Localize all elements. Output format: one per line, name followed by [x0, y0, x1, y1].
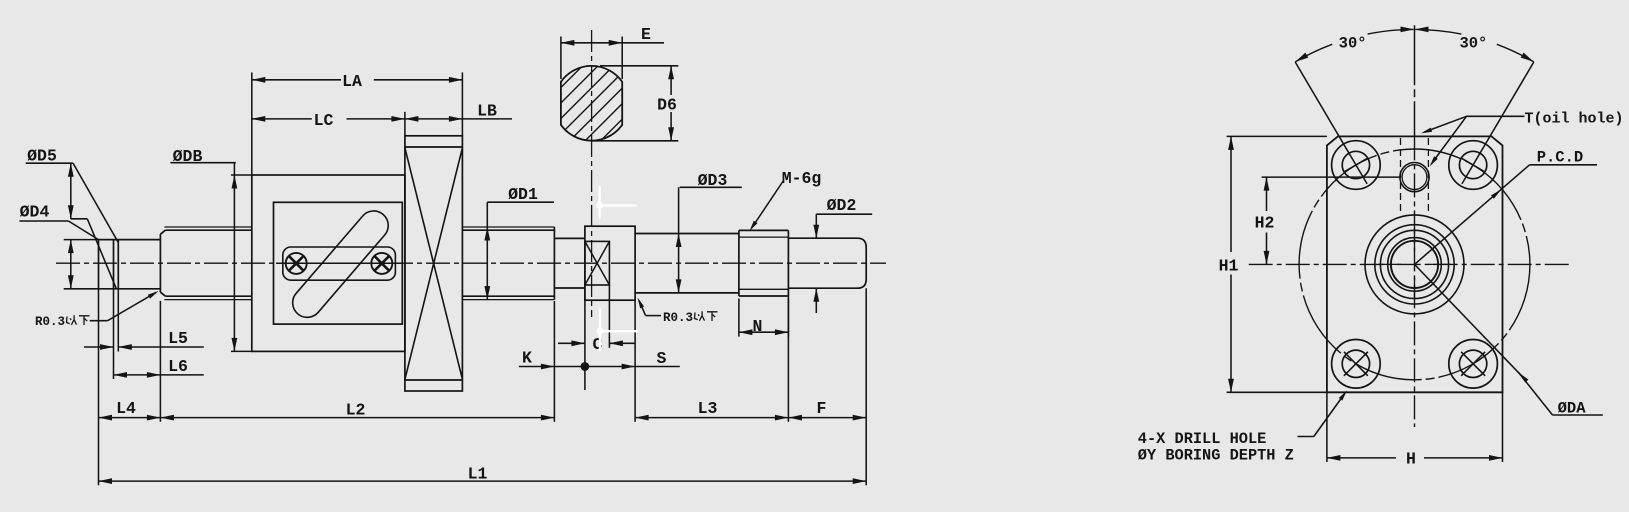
svg-text:LB: LB	[477, 101, 497, 120]
bolt hole 3	[1332, 340, 1381, 389]
svg-text:4-X DRILL HOLE: 4-X DRILL HOLE	[1138, 430, 1267, 448]
svg-text:H2: H2	[1255, 213, 1275, 232]
dim C	[584, 285, 586, 390]
dim H	[1326, 392, 1328, 462]
P.C.D circle	[1299, 149, 1530, 380]
bearing journal block	[585, 226, 635, 300]
svg-text:D6: D6	[657, 95, 677, 114]
bolt hole 2	[1449, 141, 1498, 190]
svg-text:H: H	[1406, 450, 1416, 469]
oil passage hidden lines	[1400, 138, 1402, 215]
threaded section M-6g	[738, 230, 740, 296]
shaft end section ØD2	[788, 238, 866, 288]
dim N	[738, 299, 740, 337]
svg-text:R0.3: R0.3	[663, 311, 693, 325]
relief groove lines	[113, 240, 115, 289]
oil hole T	[1400, 163, 1429, 192]
svg-text:L5: L5	[168, 329, 188, 348]
svg-text:N: N	[752, 317, 762, 336]
screw S2 (phillips head)	[371, 253, 392, 274]
svg-text:L4: L4	[116, 399, 136, 418]
svg-text:K: K	[522, 348, 532, 367]
svg-text:S: S	[657, 349, 667, 368]
flange disc outline	[405, 136, 463, 391]
30° construction line (left)	[1295, 62, 1367, 184]
ball return tube (stadium slot)	[293, 211, 389, 317]
screw shaft section (left of nut)	[159, 234, 161, 292]
ballnut body	[252, 175, 405, 351]
dim ØD5 lines	[70, 163, 72, 219]
flange plate outline (end view)	[1327, 136, 1503, 392]
svg-text:30°: 30°	[1459, 35, 1487, 53]
dim 30° arrows	[1401, 27, 1415, 33]
center bore circles	[1391, 241, 1438, 288]
svg-text:L1: L1	[468, 464, 488, 483]
flange chamfer bands	[405, 146, 463, 148]
flange cross diagonals	[405, 148, 463, 379]
svg-text:E: E	[641, 25, 651, 44]
dim L6	[114, 374, 204, 376]
svg-text:H1: H1	[1219, 257, 1239, 276]
dim L1	[99, 480, 867, 482]
bolt hole 4	[1449, 340, 1498, 389]
dim L2	[553, 301, 555, 422]
screw thread crest lines (right)	[462, 226, 554, 228]
ballnut face recess rect	[274, 202, 403, 324]
dim L3	[634, 301, 636, 422]
dim L5	[113, 289, 115, 379]
shaft section ØD3	[635, 233, 739, 235]
dim H1	[1227, 135, 1327, 137]
svg-text:30°: 30°	[1339, 35, 1367, 53]
wire vertical centerline (end view)	[1414, 25, 1416, 136]
svg-text:LA: LA	[342, 72, 362, 91]
dim K and S	[519, 366, 680, 368]
wire centerline (left view)	[56, 262, 886, 264]
white cad mark (upper)	[598, 186, 600, 219]
dim LA	[251, 72, 253, 175]
white cad mark (lower)	[599, 308, 601, 352]
screw shaft section ØD1 (right of flange)	[462, 229, 554, 231]
bolt hole 1	[1332, 141, 1381, 190]
dim H2	[1262, 176, 1400, 178]
dim LC	[404, 112, 406, 136]
shaft left journal ØD4 outline	[98, 240, 100, 289]
journal between screw and block	[554, 237, 585, 239]
svg-text:ØD1: ØD1	[508, 185, 538, 204]
dim D6	[600, 65, 678, 67]
svg-text:T(oil hole): T(oil hole)	[1525, 111, 1624, 128]
svg-text:ØY BORING DEPTH Z: ØY BORING DEPTH Z	[1138, 447, 1294, 465]
dim ØD4 lines	[68, 221, 98, 240]
svg-text:L3: L3	[698, 399, 718, 418]
svg-text:F: F	[817, 399, 827, 418]
screw S1 (phillips head)	[286, 253, 307, 274]
dim ØDB lines	[233, 163, 235, 352]
svg-text:L6: L6	[168, 357, 188, 376]
dim 30° arcs	[1295, 44, 1332, 62]
detail: shaft cross-section with flats	[561, 66, 622, 141]
svg-text:ØD2: ØD2	[827, 196, 857, 215]
wire solid centerline through nut face	[276, 262, 402, 264]
wire vertical centerline (detail)	[591, 30, 593, 317]
dim E	[560, 37, 562, 80]
svg-text:R0.3: R0.3	[35, 315, 65, 329]
svg-text:ØD4: ØD4	[20, 203, 50, 222]
center mark	[1379, 263, 1402, 265]
dim L4	[98, 290, 100, 486]
dim F	[865, 288, 867, 485]
svg-text:LC: LC	[314, 111, 334, 130]
wire horizontal centerline (end view)	[1249, 263, 1572, 265]
retainer plate	[283, 247, 396, 280]
30° construction line (right)	[1462, 62, 1534, 184]
svg-text:P.C.D: P.C.D	[1537, 148, 1584, 166]
screw thread crest lines (left)	[164, 226, 251, 228]
svg-text:M-6g: M-6g	[782, 169, 822, 188]
dim LB	[405, 118, 512, 120]
circlip groove box	[585, 241, 610, 285]
svg-text:L2: L2	[346, 401, 366, 420]
